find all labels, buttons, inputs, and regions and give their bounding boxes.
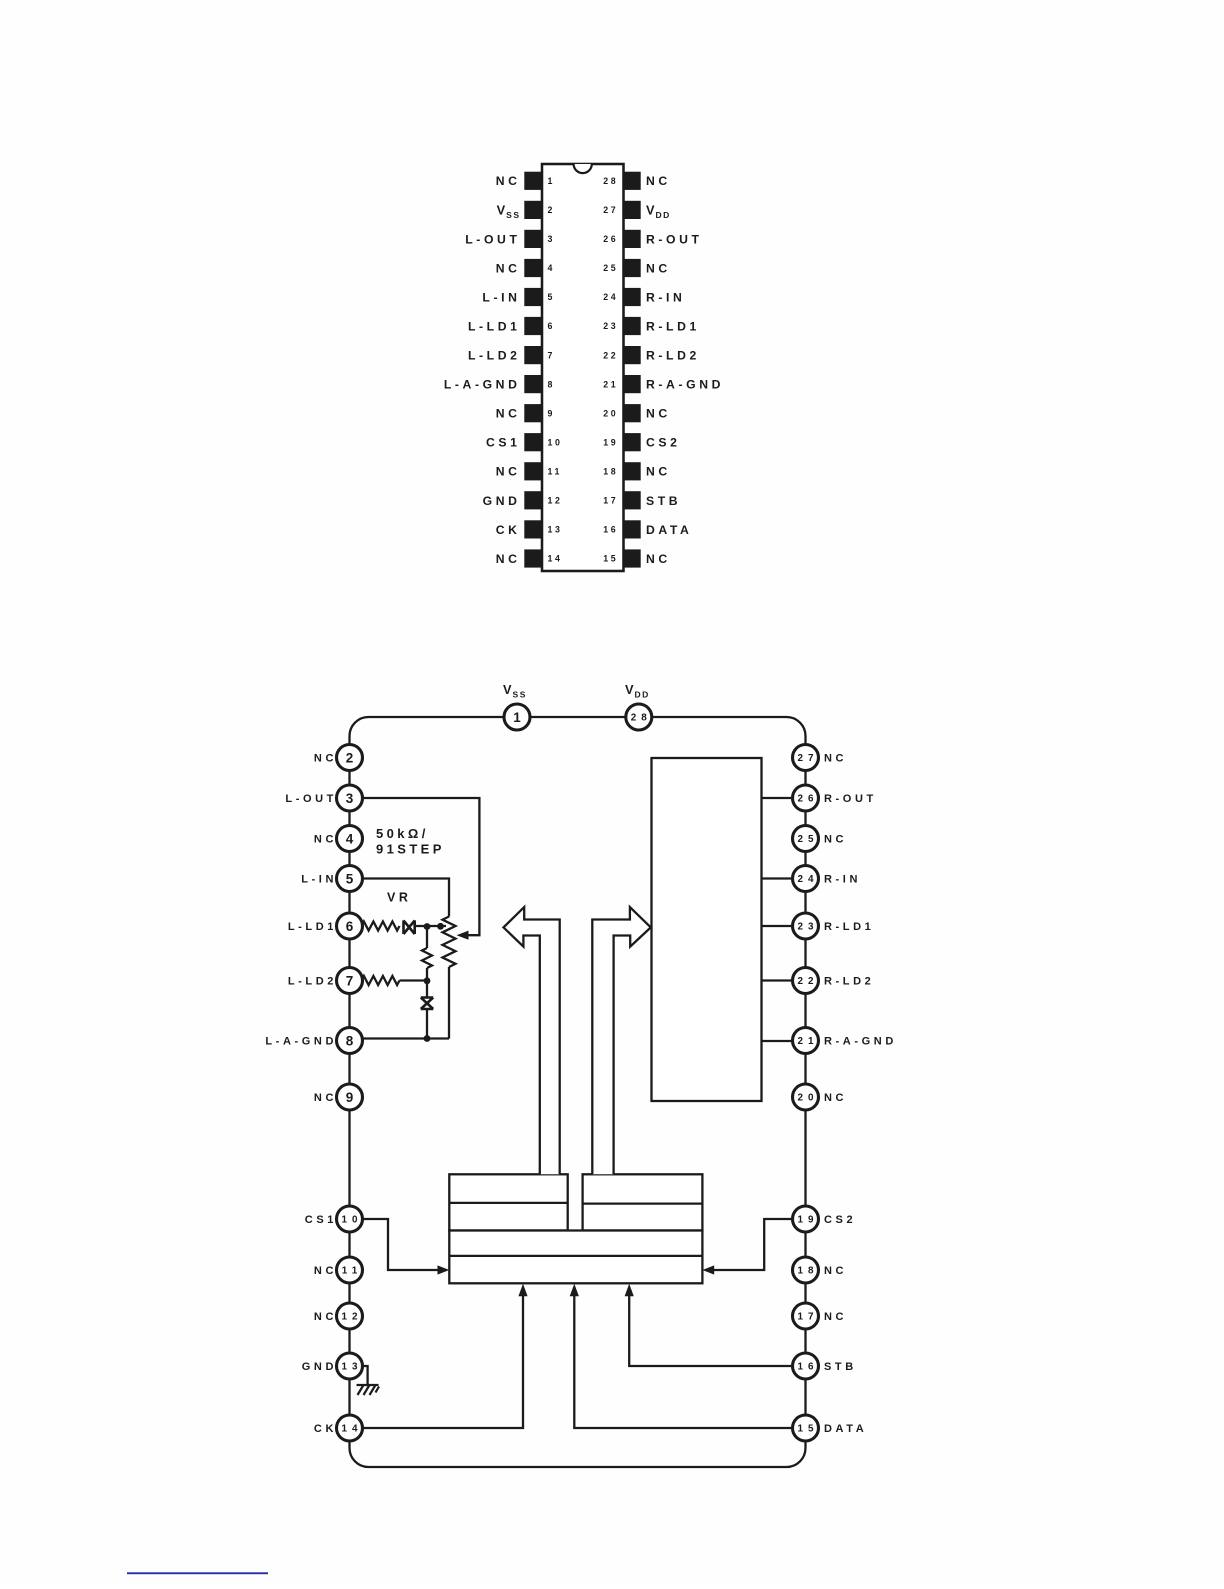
U1 pin 20 lead [623, 404, 640, 422]
shift register box R [583, 1174, 703, 1230]
terminal 2 NC [337, 745, 363, 771]
svg-text:15: 15 [603, 554, 618, 564]
svg-text:11: 11 [548, 467, 563, 477]
svg-text:16: 16 [603, 525, 618, 535]
svg-text:CS1: CS1 [486, 436, 521, 450]
terminal 27 NC [793, 745, 819, 771]
U1 pin 22 lead [623, 346, 640, 364]
svg-text:3: 3 [346, 791, 354, 806]
svg-text:14: 14 [548, 554, 563, 564]
svg-text:13: 13 [548, 525, 563, 535]
U1 pin 26 lead [623, 230, 640, 248]
junction node B on VR [437, 923, 444, 930]
svg-text:CS2: CS2 [646, 436, 681, 450]
wire pin 8 L-A-GND to VR bottom [361, 1037, 449, 1039]
svg-text:NC: NC [646, 552, 671, 566]
svg-text:14: 14 [342, 1424, 363, 1435]
svg-text:23: 23 [603, 321, 618, 331]
svg-text:9: 9 [548, 408, 556, 418]
U1 pin 17 lead [623, 491, 640, 509]
svg-text:R-IN: R-IN [824, 874, 861, 886]
terminal 5 L-IN [337, 866, 363, 892]
svg-text:5: 5 [346, 871, 354, 886]
svg-text:NC: NC [314, 1265, 337, 1277]
terminal 24 R-IN [793, 866, 819, 892]
terminal 3 L-OUT [337, 785, 363, 811]
wire SW2 to node D [426, 1009, 428, 1039]
terminal 15 DATA [793, 1415, 819, 1441]
potentiometer VR element [443, 917, 456, 968]
svg-text:NC: NC [646, 465, 671, 479]
svg-text:21: 21 [603, 379, 618, 389]
junction node D [424, 1035, 431, 1042]
svg-text:CK: CK [496, 523, 521, 537]
svg-text:CS1: CS1 [305, 1214, 337, 1226]
U1 pin 8 lead [524, 375, 542, 393]
svg-text:NC: NC [314, 1311, 337, 1323]
svg-text:18: 18 [603, 467, 618, 477]
svg-text:15: 15 [798, 1424, 819, 1435]
svg-text:NC: NC [314, 1092, 337, 1104]
terminal 1 VSS [504, 704, 530, 730]
terminal 13 GND [337, 1353, 363, 1379]
svg-text:22: 22 [603, 350, 618, 360]
IC package U1 body (28-pin DIP outline) [542, 164, 624, 571]
U1 pin 25 lead [623, 259, 640, 277]
svg-text:GND: GND [302, 1361, 337, 1373]
svg-text:NC: NC [824, 834, 847, 846]
wire block to pin 22 R-LD2 [762, 979, 795, 981]
terminal 25 NC [793, 826, 819, 852]
wire R2 to node C [426, 968, 428, 981]
terminal 14 CK [337, 1415, 363, 1441]
svg-text:25: 25 [603, 263, 618, 273]
svg-text:12: 12 [548, 496, 563, 506]
switch SW1 (pin 6 branch) [404, 920, 415, 934]
U1 pin 6 lead [524, 317, 542, 335]
svg-text:2: 2 [548, 205, 556, 215]
svg-text:7: 7 [346, 973, 354, 988]
svg-text:NC: NC [824, 1265, 847, 1277]
U1 pin 11 lead [524, 462, 542, 480]
U1 pin 5 lead [524, 288, 542, 306]
svg-text:91STEP: 91STEP [376, 842, 445, 857]
svg-text:26: 26 [798, 794, 819, 805]
footer rule [127, 1572, 268, 1574]
U1 pin 10 lead [524, 433, 542, 451]
latch box divider [449, 1255, 702, 1257]
svg-text:20: 20 [798, 1093, 819, 1104]
svg-text:5: 5 [548, 292, 556, 302]
U1 pin 15 lead [623, 549, 640, 567]
svg-text:7: 7 [548, 350, 556, 360]
ground symbol [357, 1385, 380, 1395]
terminal 4 NC [337, 826, 363, 852]
U1 pin 27 lead [623, 201, 640, 219]
U1 pin 18 lead [623, 462, 640, 480]
svg-text:L-OUT: L-OUT [285, 793, 337, 805]
svg-text:L-IN: L-IN [301, 874, 337, 886]
svg-text:STB: STB [824, 1361, 857, 1373]
svg-text:13: 13 [342, 1362, 363, 1373]
terminal 23 R-LD1 [793, 913, 819, 939]
svg-text:20: 20 [603, 408, 618, 418]
terminal 28 VDD [626, 704, 652, 730]
resistor R1 at pin 6 [362, 922, 400, 931]
terminal 7 L-LD2 [337, 968, 363, 994]
resistor R3 at pin 7 [362, 976, 400, 985]
STB arrowhead [625, 1284, 634, 1296]
pin-1 orientation notch [574, 164, 592, 173]
shift register box R divider [583, 1202, 703, 1204]
wire switch SW1 to VR tap [415, 925, 446, 927]
U1 pin 28 lead [623, 172, 640, 190]
resistor R2 (node A to pin 7 node) [422, 948, 432, 968]
svg-text:4: 4 [548, 263, 556, 273]
svg-text:6: 6 [346, 919, 354, 934]
block diagram outer loop (pin ring) [350, 717, 806, 1467]
terminal 10 CS1 [337, 1206, 363, 1232]
svg-text:26: 26 [603, 234, 618, 244]
CS2 arrowhead [702, 1265, 714, 1274]
wire pin 3 L-OUT to VR wiper [362, 798, 479, 935]
svg-text:4: 4 [346, 831, 354, 846]
svg-text:NC: NC [496, 552, 521, 566]
VR wiper arrowhead [457, 931, 469, 940]
svg-text:L-LD2: L-LD2 [468, 349, 521, 363]
U1 pin 14 lead [524, 549, 542, 567]
svg-text:NC: NC [314, 753, 337, 765]
U1 pin 3 lead [524, 230, 542, 248]
svg-text:NC: NC [314, 834, 337, 846]
svg-text:NC: NC [646, 174, 671, 188]
U1 pin 19 lead [623, 433, 640, 451]
svg-text:NC: NC [824, 1092, 847, 1104]
U1 pin 13 lead [524, 520, 542, 538]
terminal 11 NC [337, 1257, 363, 1283]
wire block to pin 21 R-A-GND [762, 1040, 795, 1042]
svg-text:18: 18 [798, 1266, 819, 1277]
svg-text:12: 12 [342, 1312, 363, 1323]
latch box full width [449, 1231, 702, 1284]
terminal 12 NC [337, 1303, 363, 1329]
svg-text:NC: NC [496, 407, 521, 421]
U1 pin 7 lead [524, 346, 542, 364]
terminal 16 STB [793, 1353, 819, 1379]
svg-text:L-LD1: L-LD1 [468, 319, 521, 333]
junction node C [424, 977, 431, 984]
wire block to pin 24 R-IN [762, 877, 795, 879]
terminal 26 R-OUT [793, 785, 819, 811]
svg-text:NC: NC [496, 174, 521, 188]
svg-text:2: 2 [346, 750, 354, 765]
svg-text:R-LD1: R-LD1 [824, 921, 874, 933]
svg-text:21: 21 [798, 1036, 819, 1047]
svg-text:24: 24 [798, 874, 819, 885]
svg-text:NC: NC [824, 753, 847, 765]
wire pin 15 DATA to latch [574, 1296, 792, 1428]
svg-text:17: 17 [798, 1312, 819, 1323]
U1 pin 23 lead [623, 317, 640, 335]
terminal 17 NC [793, 1303, 819, 1329]
CS1 arrowhead [438, 1265, 450, 1274]
svg-text:19: 19 [603, 437, 618, 447]
U1 pin 9 lead [524, 404, 542, 422]
svg-text:VR: VR [387, 891, 411, 905]
svg-text:R-A-GND: R-A-GND [824, 1036, 897, 1048]
svg-text:1: 1 [548, 176, 556, 186]
terminal 22 R-LD2 [793, 968, 819, 994]
wire pin 16 STB to latch [629, 1296, 793, 1366]
svg-text:R-IN: R-IN [646, 290, 685, 304]
wire pin 13 to ground [360, 1366, 368, 1385]
svg-text:27: 27 [798, 753, 819, 764]
U1 pin 21 lead [623, 375, 640, 393]
svg-text:28: 28 [631, 713, 652, 724]
wire block to pin 23 R-LD1 [762, 925, 795, 927]
svg-text:L-IN: L-IN [482, 290, 520, 304]
svg-text:L-LD2: L-LD2 [288, 976, 337, 988]
wire pin 5 L-IN to VR top [362, 879, 449, 917]
svg-text:10: 10 [548, 437, 563, 447]
svg-text:9: 9 [346, 1090, 354, 1105]
terminal 9 NC [337, 1084, 363, 1110]
U1 pin 1 lead [524, 172, 542, 190]
svg-text:1: 1 [513, 710, 521, 725]
svg-text:6: 6 [548, 321, 556, 331]
shift register box L [449, 1174, 567, 1230]
svg-text:R-LD2: R-LD2 [646, 349, 700, 363]
U1 pin 12 lead [524, 491, 542, 509]
shift register box L divider [449, 1202, 567, 1204]
svg-text:27: 27 [603, 205, 618, 215]
wire R3 to node C [400, 979, 428, 981]
svg-text:NC: NC [824, 1311, 847, 1323]
wire pin 14 CK to latch [362, 1296, 523, 1428]
svg-text:L-A-GND: L-A-GND [265, 1036, 337, 1048]
wire VR bottom [448, 967, 450, 1039]
svg-text:16: 16 [798, 1362, 819, 1373]
U1 pin 24 lead [623, 288, 640, 306]
terminal 18 NC [793, 1257, 819, 1283]
hollow arrow to R attenuator [592, 907, 651, 1174]
svg-text:25: 25 [798, 834, 819, 845]
wire block to pin 26 R-OUT [762, 797, 795, 799]
svg-text:R-A-GND: R-A-GND [646, 378, 724, 392]
terminal 19 CS2 [793, 1206, 819, 1232]
svg-text:8: 8 [346, 1033, 354, 1048]
svg-text:CS2: CS2 [824, 1214, 856, 1226]
svg-text:CK: CK [314, 1423, 337, 1435]
DATA arrowhead [570, 1284, 579, 1296]
svg-text:10: 10 [342, 1215, 363, 1226]
svg-text:17: 17 [603, 496, 618, 506]
svg-text:DATA: DATA [646, 523, 692, 537]
wire node A down [426, 927, 428, 949]
svg-text:24: 24 [603, 292, 618, 302]
terminal 6 L-LD1 [337, 913, 363, 939]
U1 pin 2 lead [524, 201, 542, 219]
svg-text:DATA: DATA [824, 1423, 867, 1435]
svg-text:R-OUT: R-OUT [824, 793, 877, 805]
svg-text:19: 19 [798, 1215, 819, 1226]
svg-text:3: 3 [548, 234, 556, 244]
svg-text:23: 23 [798, 922, 819, 933]
svg-text:L-OUT: L-OUT [465, 232, 520, 246]
CK arrowhead [518, 1284, 527, 1296]
svg-text:22: 22 [798, 976, 819, 987]
wire node C down [426, 981, 428, 998]
svg-text:28: 28 [603, 176, 618, 186]
svg-text:50kΩ/: 50kΩ/ [376, 826, 429, 841]
svg-text:11: 11 [342, 1266, 362, 1277]
svg-text:8: 8 [548, 379, 556, 389]
wire pin 19 CS2 to latch [706, 1219, 794, 1270]
svg-text:STB: STB [646, 494, 681, 508]
U1 pin 16 lead [623, 520, 640, 538]
terminal 20 NC [793, 1084, 819, 1110]
terminal 21 R-A-GND [793, 1028, 819, 1054]
svg-text:NC: NC [646, 407, 671, 421]
wire pin 10 CS1 to latch [362, 1219, 447, 1270]
R-channel attenuator block [652, 758, 762, 1101]
svg-text:R-LD2: R-LD2 [824, 976, 874, 988]
terminal 8 L-A-GND [337, 1028, 363, 1054]
U1 pin 4 lead [524, 259, 542, 277]
svg-text:NC: NC [646, 261, 671, 275]
svg-text:NC: NC [496, 261, 521, 275]
hollow arrow to L attenuator [504, 907, 560, 1174]
svg-text:GND: GND [483, 494, 521, 508]
svg-text:R-LD1: R-LD1 [646, 319, 700, 333]
svg-text:L-LD1: L-LD1 [288, 921, 337, 933]
svg-text:NC: NC [496, 465, 521, 479]
junction node A [424, 923, 431, 930]
svg-text:L-A-GND: L-A-GND [444, 378, 521, 392]
switch SW2 (pin 7 branch) [421, 998, 433, 1010]
svg-text:R-OUT: R-OUT [646, 232, 703, 246]
